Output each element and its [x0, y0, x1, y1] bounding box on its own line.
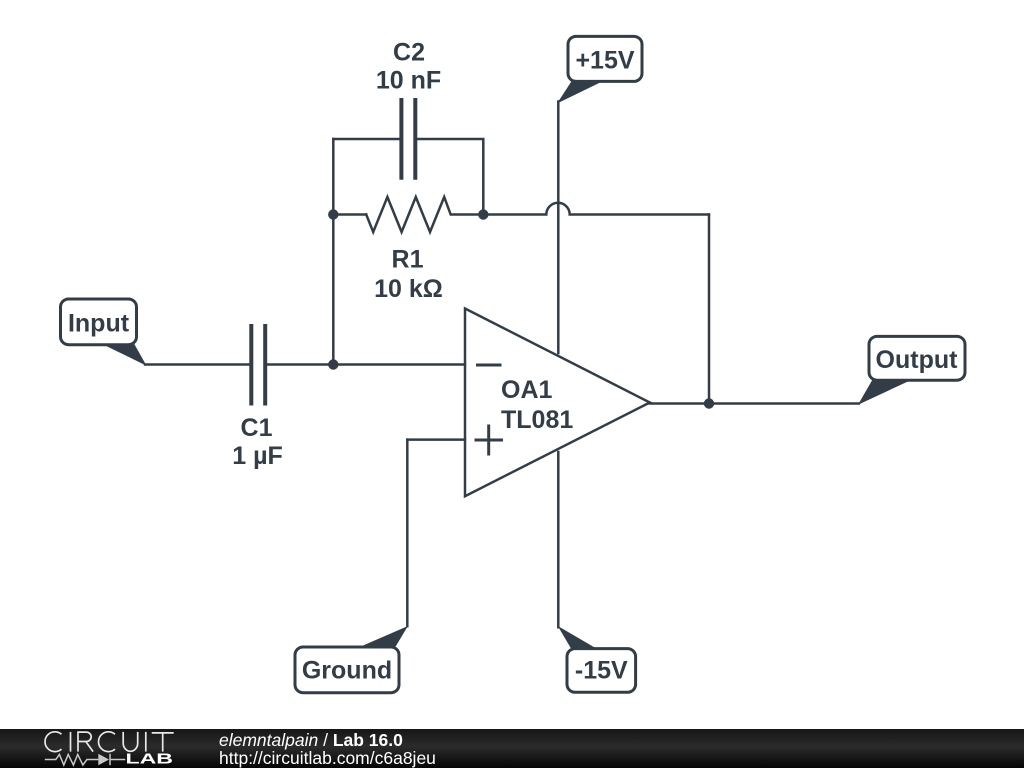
wire output	[650, 402, 859, 405]
node junction resistor left	[328, 209, 338, 219]
svg-text:-15V: -15V	[575, 656, 628, 684]
wire feedback right vertical	[708, 215, 711, 404]
svg-text:TL081: TL081	[501, 406, 573, 434]
svg-text:10 kΩ: 10 kΩ	[374, 275, 443, 303]
node output junction	[704, 398, 714, 408]
flag +15V	[557, 36, 642, 103]
wire feedback left vertical	[332, 139, 335, 365]
flag Ground	[295, 626, 408, 693]
wire top loop left	[333, 138, 400, 141]
svg-text:http://circuitlab.com/c6a8jeu: http://circuitlab.com/c6a8jeu	[219, 748, 436, 768]
svg-text:R1: R1	[392, 246, 424, 274]
svg-text:OA1: OA1	[501, 376, 553, 404]
footer credit text	[219, 730, 436, 768]
svg-text:Output: Output	[876, 346, 959, 374]
svg-text:Input: Input	[68, 310, 130, 338]
wire top loop right	[417, 139, 484, 215]
svg-text:1 µF: 1 µF	[232, 442, 283, 470]
svg-text:10 nF: 10 nF	[376, 67, 441, 95]
flag Input	[61, 299, 147, 366]
op-amp OA1	[465, 309, 650, 497]
wire input left segment	[145, 363, 250, 366]
footer bar	[0, 729, 1024, 768]
wire feedback top with hop over supply	[483, 203, 709, 215]
wire positive supply vertical	[557, 102, 560, 354]
svg-text:elemntalpain / Lab 16.0: elemntalpain / Lab 16.0	[219, 730, 403, 750]
svg-text:C1: C1	[241, 414, 273, 442]
svg-text:Ground: Ground	[302, 656, 392, 684]
svg-text:+15V: +15V	[575, 47, 634, 75]
node junction at input of feedback	[328, 359, 338, 369]
capacitor C1	[232, 326, 283, 470]
logo CircuitLab wordmark	[45, 732, 174, 768]
wire negative supply vertical	[557, 452, 560, 627]
flag Output	[858, 336, 965, 404]
svg-text:LAB: LAB	[126, 752, 174, 768]
wire non-inverting input	[407, 438, 465, 441]
wire C1 to inverting input	[267, 363, 466, 366]
svg-text:C2: C2	[393, 39, 425, 67]
logo resistor-diode glyph	[45, 754, 126, 765]
node junction resistor right	[478, 209, 488, 219]
flag -15V	[558, 626, 636, 692]
wire ground vertical	[406, 440, 409, 627]
capacitor C2	[376, 39, 441, 178]
resistor R1	[333, 197, 483, 303]
